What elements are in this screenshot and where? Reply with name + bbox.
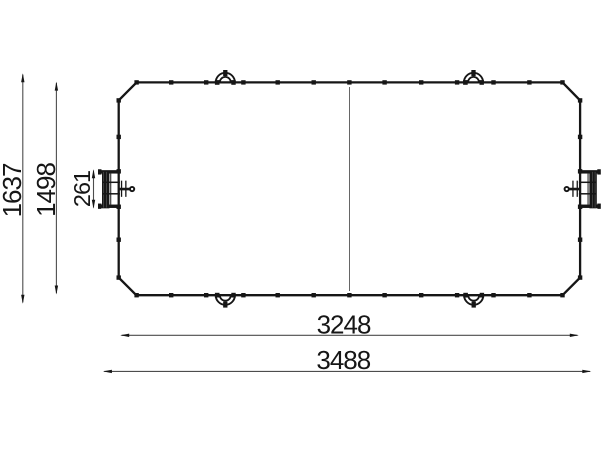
- arrowhead 261 top: [92, 169, 95, 178]
- dimension 1498 (frame height, left inner): [31, 82, 61, 295]
- svg-text:1637: 1637: [0, 163, 27, 217]
- frame clamp squares on right edge: [578, 98, 582, 280]
- frame clamp squares on bottom edge: [134, 293, 564, 297]
- arrowhead 3488 left: [103, 370, 112, 373]
- ladder left: [98, 169, 134, 209]
- handle arc top-left: [215, 70, 236, 85]
- dim line 3488: [104, 370, 590, 372]
- dimension 261 (ladder width): [69, 169, 95, 209]
- arrowhead 1498 top: [55, 82, 58, 91]
- arrowhead 3488 right: [582, 370, 591, 373]
- arrowhead 1498 bottom: [55, 286, 58, 295]
- handle arc bottom-right: [463, 293, 484, 308]
- arrowhead 261 bottom: [92, 200, 95, 209]
- svg-text:261: 261: [69, 171, 95, 207]
- arrowhead 3248 left: [120, 334, 129, 337]
- dimension 3488 (overall length): [103, 345, 591, 375]
- dim line 261: [93, 171, 95, 208]
- dimension 3248 (frame length): [120, 309, 579, 339]
- ladder right: [565, 169, 601, 209]
- svg-text:3488: 3488: [316, 345, 370, 375]
- dimension 1637 (overall height, left outer): [0, 73, 27, 304]
- dim line 3248: [122, 334, 578, 336]
- table outline (chamfered rectangle frame): [119, 82, 580, 295]
- arrowhead 3248 right: [570, 334, 579, 337]
- frame clamp squares on left edge: [117, 98, 121, 280]
- dim line 1637: [22, 75, 24, 303]
- frame clamp squares on top edge: [134, 80, 564, 84]
- arrowhead 1637 bottom: [21, 295, 24, 304]
- net line (center divider): [349, 87, 351, 291]
- arrowhead 1637 top: [21, 73, 24, 82]
- svg-text:3248: 3248: [317, 309, 371, 339]
- handle arc top-right: [463, 70, 484, 85]
- dim line 1498: [55, 83, 57, 293]
- handle arc bottom-left: [215, 293, 236, 308]
- svg-text:1498: 1498: [31, 163, 61, 217]
